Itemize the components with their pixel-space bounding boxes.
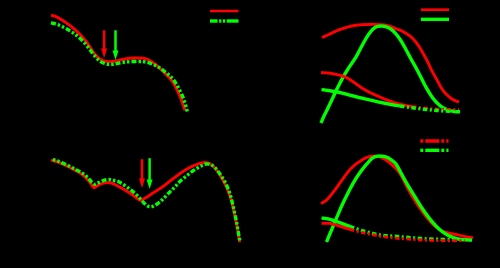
bottom-left green annotation arrow: [147, 158, 153, 189]
top-left red annotation arrow: [101, 30, 107, 58]
top-right panel red broad bell curve: [322, 24, 459, 102]
top-right panel lower green curve: [322, 90, 401, 107]
bottom-left panel red curve (solid): [51, 160, 240, 242]
bottom-right panel lower green curve dashed tail: [350, 227, 465, 240]
top-left legend green dash-dot sample line: [210, 19, 239, 22]
top-left green annotation arrow: [113, 30, 119, 60]
top-right panel lower red curve: [321, 73, 412, 107]
bottom-right legend green dash-dot sample line: [420, 149, 448, 152]
top-right panel lower green curve dashed tail: [400, 106, 460, 112]
bottom-left panel green curve (dash-dot): [51, 159, 240, 243]
bottom-right legend red dash-dot sample line: [420, 139, 448, 142]
top-left panel red curve (solid): [51, 15, 185, 110]
top-right panel green tall bell curve: [321, 26, 459, 123]
top-right panel lower red curve dashed tail: [412, 107, 459, 110]
bottom-right panel lower green curve: [322, 218, 351, 227]
top-right legend green solid sample line: [421, 18, 449, 21]
bottom-right panel lower red curve: [322, 223, 351, 229]
bottom-left red annotation arrow: [139, 159, 145, 188]
bottom-right panel lower red curve dashed tail: [350, 229, 465, 240]
top-left panel green curve (dash-dot): [51, 23, 187, 112]
bottom-right panel red bell curve: [321, 156, 473, 238]
top-right legend red solid sample line: [421, 8, 449, 11]
bottom-right panel green bell curve: [327, 156, 473, 242]
top-left legend red solid sample line: [210, 10, 239, 13]
